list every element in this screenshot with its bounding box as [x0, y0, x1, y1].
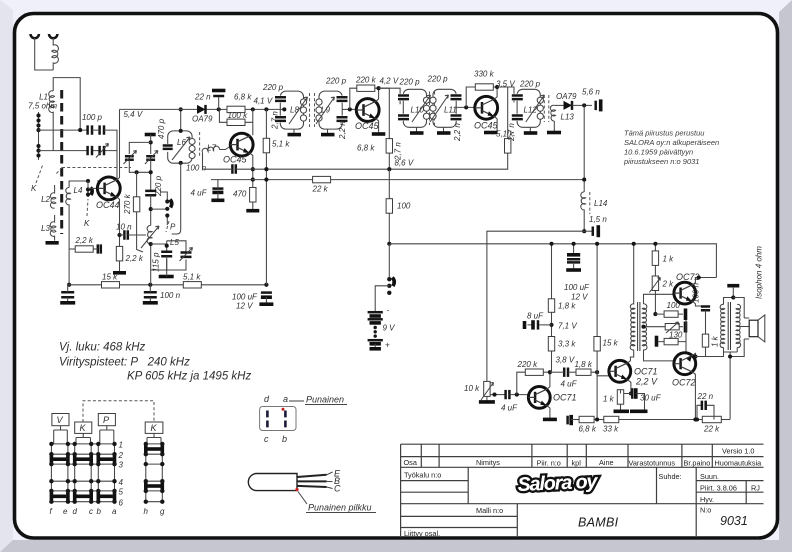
- trimmer loop right branch: [167, 241, 186, 270]
- svg-text:220 p: 220 p: [325, 77, 347, 86]
- wire 270k bottom: [137, 212, 143, 252]
- wire rail to L6 top: [180, 109, 182, 130]
- OC45 third emitter ground: [495, 117, 498, 131]
- wire third row: [659, 320, 687, 361]
- label 100 uF 12 V left: [232, 293, 258, 311]
- wire 220k left drop: [517, 372, 526, 394]
- dot battery rail left: [387, 242, 391, 246]
- svg-text:4: 4: [119, 478, 124, 487]
- arrow 130: [666, 322, 679, 333]
- speaker: [744, 315, 765, 342]
- Salora logo: [517, 470, 599, 496]
- wire tuning row 1: [39, 129, 88, 131]
- ground bar left: [60, 301, 75, 305]
- trimmer cap loop: [181, 253, 192, 257]
- matrix row numbers: [118, 441, 124, 508]
- resistor 1,8k column: [548, 299, 554, 313]
- supply column wire: [265, 109, 267, 284]
- wire collector to L12: [497, 87, 514, 102]
- svg-text:L13: L13: [561, 113, 575, 122]
- svg-text:L9: L9: [321, 106, 330, 115]
- coil L13: [550, 105, 555, 121]
- trimmer arrow osc right: [145, 151, 158, 165]
- label 100 uF 12 V audio: [564, 283, 590, 302]
- rail 5.4V/4.1V: [120, 108, 285, 110]
- transistor OC72 upper: [674, 282, 696, 304]
- resistor 330k: [475, 84, 493, 90]
- ground OC45 third: [484, 131, 498, 135]
- svg-text:OC71: OC71: [634, 367, 658, 377]
- secondary top tap: [644, 294, 675, 304]
- package red dot: [295, 488, 298, 491]
- battery rail: [389, 244, 716, 278]
- wire node to 4uF: [550, 371, 564, 373]
- electrolytic 8uF: [525, 320, 552, 329]
- matrix dots left: [49, 442, 117, 504]
- svg-text:5,1 k: 5,1 k: [272, 140, 290, 149]
- OC72 upper emitter: [693, 302, 706, 306]
- resistor 1k output: [702, 334, 708, 347]
- driver trafo primary: [630, 244, 635, 350]
- svg-text:3,8 V: 3,8 V: [556, 356, 575, 365]
- ground 470: [246, 209, 259, 213]
- bracket K first: [76, 433, 91, 444]
- coil L1: [49, 91, 55, 151]
- capacitor 220p osc: [145, 191, 156, 195]
- svg-text:Salora oy: Salora oy: [517, 470, 599, 496]
- dot rail at 266: [264, 283, 268, 287]
- svg-text:L7: L7: [207, 144, 216, 153]
- svg-text:L10: L10: [411, 106, 425, 115]
- svg-text:100 n: 100 n: [692, 282, 701, 303]
- wire L9 tap to OC45 base: [342, 108, 356, 110]
- secondary bottom tap: [644, 350, 675, 361]
- resistor 130 variable: [665, 324, 679, 330]
- dot emitter node: [629, 391, 633, 395]
- connector red dot: [282, 408, 285, 411]
- svg-text:h: h: [144, 507, 149, 516]
- dot L14 bottom: [582, 229, 586, 233]
- svg-text:100 n: 100 n: [160, 291, 181, 300]
- capacitor plates right of 2.2k: [98, 244, 101, 253]
- svg-text:2,2 k: 2,2 k: [125, 254, 144, 263]
- switch blade: [392, 278, 394, 287]
- transistor OC45 second: [356, 99, 379, 122]
- svg-text:OA79: OA79: [556, 92, 577, 101]
- electrolytic 30uF: [632, 388, 644, 410]
- dot L8 tap: [282, 107, 286, 111]
- wire tuning row 2: [39, 151, 118, 181]
- wire trafo mid to speaker: [737, 326, 749, 328]
- dot driver base node: [595, 370, 599, 374]
- title block outline: [401, 444, 764, 537]
- switch contact dots: [387, 277, 391, 295]
- svg-text:330 k: 330 k: [474, 70, 495, 79]
- connector box: [260, 407, 296, 431]
- dot row 15k column: [595, 417, 599, 421]
- svg-text:Virityspisteet: P 240 kHz: Virityspisteet: P 240 kHz: [59, 357, 190, 369]
- svg-text:L8: L8: [290, 106, 299, 115]
- svg-text:10.6.1959 päivättyyn: 10.6.1959 päivättyyn: [624, 148, 693, 157]
- svg-text:8 uF: 8 uF: [527, 312, 544, 321]
- svg-text:2,7 n: 2,7 n: [394, 142, 403, 161]
- wire diode to node: [572, 104, 592, 106]
- resistor 2,2k emitter vertical: [116, 246, 122, 261]
- ground OC71 first: [543, 418, 557, 422]
- svg-text:22 k: 22 k: [312, 185, 329, 194]
- wire 220k left drop: [350, 88, 357, 109]
- wire L7 left down to 8.6V rail: [202, 153, 204, 169]
- svg-text:Liittyy osal.: Liittyy osal.: [404, 529, 440, 538]
- transistor OC71 first: [528, 387, 550, 409]
- dot 100uF top: [572, 242, 576, 246]
- OC72 lower collector: [693, 353, 696, 356]
- bias column: [654, 244, 656, 314]
- svg-text:BAMBI: BAMBI: [578, 516, 619, 530]
- svg-text:220 k: 220 k: [517, 360, 539, 369]
- dashed switch arm K left: [36, 164, 43, 183]
- lead labels E B C: [327, 469, 341, 494]
- capacitor 100n output: [701, 307, 710, 311]
- svg-text:220 k: 220 k: [355, 76, 377, 85]
- wire row1 mid: [92, 130, 117, 151]
- dashed arm K2: [87, 199, 88, 216]
- wire 1.8k to driver base: [591, 372, 609, 376]
- ground below L3: [46, 241, 59, 245]
- wire 220p to L5: [150, 195, 152, 225]
- switch K contacts: [87, 181, 89, 197]
- dot supply column 8.6: [264, 167, 268, 171]
- svg-text:10 n: 10 n: [116, 223, 132, 232]
- matrix contact bars rows 5-6: [51, 490, 114, 503]
- driver trafo secondary: [642, 304, 647, 350]
- wire bias to 100: [655, 313, 683, 315]
- svg-text:e: e: [63, 507, 68, 516]
- wire 1k down: [695, 347, 705, 356]
- antenna hook right: [49, 34, 57, 38]
- dot emitter on 8.6V rail: [251, 167, 255, 171]
- svg-text:Työkalu n:o: Työkalu n:o: [404, 471, 441, 480]
- core dashes L6-L7: [199, 132, 201, 158]
- dot 100k left wait: [251, 107, 255, 111]
- output trafo right coil: [736, 304, 741, 347]
- matrix column letters: [50, 507, 166, 516]
- wire L13 top to diode: [554, 104, 563, 106]
- capacitor 100uF 12V left: [261, 293, 272, 303]
- wire 100 ohm column: [388, 169, 390, 244]
- svg-text:a: a: [112, 507, 117, 516]
- svg-text:15 k: 15 k: [603, 339, 619, 348]
- svg-text:12 V: 12 V: [571, 293, 588, 302]
- wire trafo top left: [724, 298, 734, 305]
- IF TANK L11: [430, 89, 462, 127]
- dashed gang link top: [83, 401, 154, 422]
- svg-text:L12: L12: [524, 106, 538, 115]
- capacitor 10n: [124, 230, 127, 239]
- core dashes L10-L11: [430, 92, 435, 126]
- pot 10k: [484, 381, 490, 396]
- matrix contact bars right rows 1-2: [146, 443, 163, 456]
- leader Punainen: [289, 400, 304, 402]
- label Punainen pilkku: [306, 503, 376, 513]
- resistor 6,8k IF: [386, 139, 392, 154]
- svg-text:a: a: [283, 394, 288, 404]
- matrix contact bars right rows 4-5: [146, 480, 163, 492]
- switch P contact dots: [165, 199, 169, 217]
- resistor 22k bottom: [702, 416, 721, 422]
- capacitor row1 second: [100, 125, 104, 134]
- connector letters: [264, 394, 288, 444]
- resistor 100k: [227, 119, 245, 125]
- wire pot to ground: [486, 396, 488, 400]
- svg-text:V: V: [57, 415, 64, 425]
- svg-text:Br.paino: Br.paino: [684, 459, 711, 468]
- box K second: [145, 422, 163, 433]
- wire 100k drop left: [219, 109, 227, 122]
- svg-text:220 p: 220 p: [399, 78, 421, 87]
- svg-text:7,5 ohm: 7,5 ohm: [28, 102, 57, 111]
- wire trafo top right to speaker: [733, 298, 744, 319]
- OC71 first collector: [547, 372, 550, 389]
- core dash L14: [589, 192, 591, 214]
- svg-text:4 uF: 4 uF: [501, 404, 518, 413]
- wire L11 ground: [443, 127, 445, 131]
- dot 22n node: [217, 107, 221, 111]
- resistor 220k audio: [525, 369, 543, 375]
- svg-text:100 n: 100 n: [186, 164, 207, 173]
- wire cap left: [67, 285, 69, 302]
- package leads: [297, 475, 327, 487]
- resistor 100: [386, 199, 392, 214]
- coil L3: [50, 215, 56, 241]
- svg-text:c: c: [264, 434, 269, 444]
- dot supply column top: [264, 107, 268, 111]
- resistor 5,1k rail: [183, 282, 201, 288]
- svg-text:5,6 n: 5,6 n: [582, 88, 600, 97]
- wire 5.1k feed: [497, 87, 508, 139]
- svg-text:100 k: 100 k: [228, 111, 249, 120]
- dot audio supply top: [549, 242, 553, 246]
- resistor 15k audio: [594, 337, 600, 352]
- coil L2: [50, 185, 55, 208]
- svg-text:100: 100: [397, 202, 411, 211]
- svg-text:470: 470: [233, 190, 247, 199]
- diode OA79 detector: [564, 101, 573, 110]
- svg-text:5,1 k: 5,1 k: [183, 273, 201, 282]
- svg-text:Punainen pilkku: Punainen pilkku: [308, 503, 372, 513]
- svg-text:1: 1: [119, 441, 123, 450]
- IF TANK L10: [398, 89, 431, 127]
- svg-text:L5: L5: [170, 238, 179, 247]
- svg-text:OC45: OC45: [474, 121, 499, 131]
- gang dashed link: [62, 167, 131, 169]
- capacitor 470p on L6: [163, 144, 174, 152]
- dot L5 right tap: [149, 242, 153, 246]
- trimmer cap osc left: [125, 156, 134, 160]
- svg-text:d: d: [73, 507, 78, 516]
- trimmer arrow row2: [96, 144, 109, 158]
- dot OC72 lower collector node: [693, 354, 697, 358]
- 8.6V rail left part: [203, 168, 267, 170]
- resistor 100 bias: [664, 311, 678, 317]
- svg-text:115 p: 115 p: [152, 252, 161, 272]
- wire 22k to corner: [721, 419, 730, 421]
- OC45 third collector: [493, 87, 497, 99]
- 8.6V rail main: [266, 152, 507, 169]
- svg-text:2 k: 2 k: [662, 280, 675, 289]
- wire bar to trafo: [732, 287, 734, 298]
- dot collector node 371: [548, 370, 552, 374]
- svg-text:Suhde:: Suhde:: [659, 472, 682, 481]
- resistor 2,2k base horizontal: [75, 246, 93, 252]
- svg-text:OC44: OC44: [96, 200, 120, 210]
- output trafo left coil: [720, 304, 725, 347]
- wire 100n to 1k: [705, 310, 707, 334]
- svg-text:220 p: 220 p: [154, 175, 163, 197]
- dot base OC71 first: [515, 393, 519, 397]
- ground bar 100n: [143, 301, 158, 305]
- svg-text:Tämä piirustus perustuu: Tämä piirustus perustuu: [624, 129, 705, 138]
- wire right column down: [729, 352, 731, 420]
- wire cap 100n: [149, 285, 151, 302]
- svg-text:Hyv.: Hyv.: [700, 495, 714, 504]
- svg-text:6: 6: [119, 498, 124, 507]
- svg-text:kpl: kpl: [572, 459, 582, 468]
- wire collector node to trafo bottom: [695, 352, 723, 357]
- transistor OC44: [97, 177, 120, 200]
- ground pot: [479, 400, 495, 404]
- svg-text:470 p: 470 p: [157, 118, 166, 139]
- transistor OC45 first: [230, 133, 253, 156]
- svg-text:g: g: [160, 507, 165, 516]
- dot tie left: [135, 170, 139, 174]
- ground L9: [321, 133, 335, 137]
- box K first: [75, 422, 92, 433]
- wire 270k top: [136, 172, 138, 197]
- svg-text:1,5 n: 1,5 n: [589, 215, 607, 224]
- wire row to 22k: [619, 419, 703, 421]
- capacitor 1,5n ground bar: [596, 225, 600, 237]
- note Tama piirustus: [623, 129, 719, 167]
- svg-text:2,2 V: 2,2 V: [635, 377, 658, 387]
- wire L6 bottom down to L5: [172, 163, 181, 234]
- svg-text:2,2 n: 2,2 n: [453, 123, 462, 142]
- cap bar above trafo: [727, 284, 739, 288]
- wire 115p to ground: [166, 256, 168, 276]
- dot 115p top: [165, 244, 169, 248]
- label Punainen: [305, 395, 347, 405]
- svg-text:+: +: [385, 341, 390, 350]
- antenna link box: [53, 78, 80, 130]
- svg-text:Varastotunnus: Varastotunnus: [629, 459, 676, 468]
- connector pins: [267, 411, 285, 428]
- svg-text:Vj. luku: 468 kHz: Vj. luku: 468 kHz: [59, 342, 146, 354]
- resistor 1,8k coupling: [576, 369, 591, 375]
- dot collector third: [495, 85, 499, 89]
- svg-text:L14: L14: [594, 199, 608, 208]
- wire L10 ground: [416, 127, 418, 131]
- dot center tap: [641, 325, 645, 329]
- left shaded strip: [0, 0, 13, 552]
- tap dots: [36, 113, 40, 157]
- dot osc node: [149, 140, 153, 144]
- svg-text:c: c: [89, 507, 93, 516]
- svg-text:3,3 k: 3,3 k: [558, 340, 576, 349]
- dot trafo top: [731, 295, 735, 299]
- capacitor 1,5n plate: [592, 227, 595, 236]
- svg-text:K: K: [80, 423, 87, 433]
- wire 4uF to base: [509, 394, 528, 396]
- svg-text:220 p: 220 p: [519, 80, 541, 89]
- svg-text:Malli n:o: Malli n:o: [476, 506, 503, 515]
- svg-text:N:o: N:o: [700, 506, 711, 515]
- OC44 emitter wire down: [117, 197, 119, 246]
- svg-text:P: P: [103, 415, 109, 425]
- svg-text:2,7 n: 2,7 n: [271, 111, 280, 130]
- L6 coil arrow: [172, 137, 190, 160]
- cap bar right of 130: [684, 322, 688, 333]
- OC72 lower emitter: [693, 372, 696, 419]
- IF TANK L8: [275, 91, 308, 129]
- IF TANK L12: [512, 89, 545, 127]
- dot above L5: [149, 207, 153, 211]
- capacitor 22n top bar: [212, 89, 225, 93]
- wire 4uF to 1.8k: [568, 371, 576, 373]
- matrix dots right: [144, 442, 165, 504]
- svg-text:Aine: Aine: [599, 458, 614, 467]
- capacitor 100uF audio: [567, 244, 580, 269]
- junction dot box/row1: [78, 128, 82, 132]
- svg-text:OC71: OC71: [553, 393, 577, 403]
- coil L7 horizontal: [202, 146, 219, 153]
- cap plate pair left: [568, 415, 580, 425]
- trimmer arrow osc left: [124, 151, 137, 165]
- ground 100uF left: [259, 302, 273, 306]
- capacitor 115p: [161, 252, 172, 256]
- rotor bar top: [145, 133, 156, 137]
- capacitor 100p plates row1: [88, 125, 92, 134]
- wire speaker bottom: [730, 339, 744, 357]
- resistor 2k variable: [652, 276, 658, 291]
- svg-text:OC45: OC45: [223, 155, 248, 165]
- capacitor 100n mixer in 8.6V rail: [232, 164, 235, 173]
- detector column down: [583, 105, 585, 191]
- resistor 270k: [133, 197, 139, 212]
- wire emitter to 1k: [621, 390, 631, 410]
- ground L12: [524, 131, 538, 135]
- arrow 2k: [649, 278, 660, 293]
- svg-text:3: 3: [119, 461, 124, 470]
- battery 9V: [368, 312, 383, 349]
- wire 10n left: [120, 234, 125, 236]
- ground L8: [288, 133, 302, 137]
- capacitor 5,6n plate: [594, 101, 597, 110]
- box P: [98, 414, 115, 426]
- wire 100k right to collector column: [245, 109, 253, 135]
- resistor 3,3k column: [548, 337, 554, 352]
- wire wiper to 4uF: [490, 394, 505, 396]
- coil L5: [147, 225, 152, 284]
- svg-text:Osa: Osa: [404, 458, 418, 467]
- bracket P: [100, 426, 114, 444]
- cap 100n to ground: [144, 292, 157, 297]
- dot bias top: [653, 242, 657, 246]
- wire L7 right to OC45 base: [219, 147, 230, 150]
- node base top dot: [86, 179, 90, 183]
- dot rail 150: [148, 283, 152, 287]
- wire L12 ground: [529, 127, 531, 131]
- wire L9 bottom ground: [327, 129, 329, 133]
